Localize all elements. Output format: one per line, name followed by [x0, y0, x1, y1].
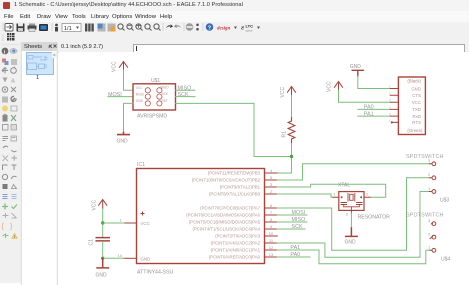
wire GND to J2 pin GND [358, 76, 391, 89]
svg-text:4: 4 [270, 168, 273, 173]
svg-text:4: 4 [389, 105, 391, 109]
resistor R1 [288, 118, 295, 144]
svg-text:2: 2 [346, 212, 349, 217]
svg-text:AVRISPSMD: AVRISPSMD [137, 114, 167, 120]
node PA1 wire IC1 pin12 to U$4 pin1 [277, 250, 430, 264]
power symbol VCC (near J2) [334, 82, 342, 91]
svg-text:SCK: SCK [292, 224, 303, 230]
pin 1 VCC (left) [124, 222, 137, 224]
ground below XTAL [346, 228, 357, 236]
wire IC1 pin11 to U$3 pin1 [277, 192, 429, 258]
wire IC1 pin2 to XTAL pin1 [277, 194, 333, 197]
svg-text:ATTINY44-SSU: ATTINY44-SSU [137, 270, 173, 276]
svg-text:U$1: U$1 [151, 78, 160, 84]
svg-text:9: 9 [270, 224, 273, 229]
svg-text:GND: GND [411, 86, 421, 91]
svg-text:U$4: U$4 [441, 257, 450, 263]
connector J2 FTDI header [398, 77, 425, 135]
wire IC1 pin3 to XTAL pin3 [277, 184, 386, 197]
wire SCK stub [176, 96, 196, 98]
wire RST net (U$1 to junction) [176, 103, 292, 156]
svg-text:U$3: U$3 [440, 198, 449, 204]
svg-text:3: 3 [389, 98, 391, 102]
svg-text:(PCINT8/XTAL1/CLKI)PB0: (PCINT8/XTAL1/CLKI)PB0 [209, 192, 261, 197]
wire to IC1 pin14 [103, 257, 124, 259]
wire R1 to IC1 pin4 [277, 144, 291, 174]
svg-text:5: 5 [389, 112, 391, 116]
panel divider lines [57, 42, 58, 285]
wire VCC rail to IC1 pin1 [103, 209, 124, 224]
svg-text:6: 6 [270, 203, 273, 208]
sheets header pin and close icons [49, 45, 57, 49]
svg-text:GND: GND [350, 64, 362, 70]
svg-text:}: } [10, 224, 13, 231]
svg-text:(PCINT6/OC1A/SDA/MOSI/ADC6)PA6: (PCINT6/OC1A/SDA/MOSI/ADC6)PA6 [186, 213, 260, 218]
svg-text:(PCINT10/INT0/OC0A/CKOUT)PB2: (PCINT10/INT0/OC0A/CKOUT)PB2 [192, 178, 261, 183]
sheet panel scrollbar arrow [52, 52, 57, 58]
junction GND/C1 [101, 257, 104, 260]
IC1 pin function labels [186, 171, 260, 260]
svg-text:GND: GND [117, 139, 129, 145]
svg-text:RTS: RTS [412, 120, 421, 125]
svg-text:(PCINT5/OC1B/MISO/DO/ADC5)PA5: (PCINT5/OC1B/MISO/DO/ADC5)PA5 [189, 220, 261, 225]
svg-text:C: C [45, 56, 49, 61]
wire MISO stub [176, 89, 196, 91]
svg-text:3: 3 [366, 192, 369, 197]
svg-text:SCK: SCK [178, 92, 189, 98]
node MISO stub at IC1 pin8 [277, 221, 307, 223]
left palette icons [2, 44, 20, 240]
svg-text:14: 14 [118, 253, 123, 258]
svg-text:(PCINT3/T0/ADC3)PA3: (PCINT3/T0/ADC3)PA3 [215, 234, 260, 239]
junction VCC/C1 [101, 221, 104, 224]
node PA0 stub at IC1 pin13 [277, 256, 310, 258]
svg-text:GND: GND [136, 99, 144, 103]
toolbar row 2 grid icon [3, 33, 15, 41]
svg-text:TXD: TXD [412, 107, 421, 112]
wire VCC to J2 [339, 90, 391, 102]
svg-text:CTS: CTS [412, 93, 421, 98]
IC1 right pin stubs [265, 173, 278, 257]
svg-text:7: 7 [270, 210, 273, 215]
svg-text:5: 5 [270, 175, 273, 180]
svg-text:2: 2 [270, 189, 273, 194]
pin dot J2 RTS (unconnected) [391, 121, 393, 123]
svg-text:RxD: RxD [412, 114, 421, 119]
power symbol VCC (top-left, for AVRISPSMD) [119, 62, 127, 71]
junction RST node [290, 155, 293, 158]
svg-text:MISO: MISO [178, 86, 192, 92]
svg-text:GND: GND [345, 240, 357, 246]
svg-text:spice: spice [246, 29, 253, 33]
svg-text:10: 10 [269, 231, 274, 236]
svg-text:RST: RST [162, 99, 168, 103]
wire VCC to R1 [291, 96, 293, 118]
svg-text:design: design [217, 27, 231, 32]
svg-text:(Black): (Black) [407, 78, 421, 83]
svg-text:2: 2 [428, 232, 431, 237]
wire XTAL pin2 to ground [350, 213, 352, 228]
toolbar row 1 icons [3, 23, 261, 33]
svg-text:3: 3 [428, 218, 431, 223]
svg-text:1: 1 [334, 192, 337, 197]
svg-text:1/1: 1/1 [64, 26, 72, 32]
node SCK stub at IC1 pin9 [277, 228, 305, 230]
svg-text:VCC: VCC [412, 100, 421, 105]
svg-text:SPDTSWITCH: SPDTSWITCH [406, 154, 444, 160]
svg-text:GND: GND [141, 256, 151, 261]
svg-text:(PCINT11/RESET/DW)PB3: (PCINT11/RESET/DW)PB3 [208, 171, 261, 176]
wire IC1 pin5 to U$3 pin3 [277, 164, 429, 180]
sheet thumbnail doodles [28, 56, 49, 70]
svg-text:VCC: VCC [92, 200, 98, 211]
svg-text:IC1: IC1 [137, 162, 145, 168]
svg-text:SPDTSWITCH: SPDTSWITCH [406, 213, 444, 219]
svg-text:(PCINT2/AIN1/ADC2)PA2: (PCINT2/AIN1/ADC2)PA2 [211, 241, 261, 246]
svg-text:12: 12 [269, 245, 274, 250]
svg-text:MOSI: MOSI [292, 210, 306, 216]
svg-text:{: { [2, 224, 5, 231]
svg-text:3: 3 [270, 182, 273, 187]
IC1 right pin numbers [269, 168, 274, 257]
svg-text:8: 8 [270, 217, 273, 222]
svg-text:MISO: MISO [292, 217, 306, 223]
wire VCC to U$1 [124, 70, 134, 90]
svg-text:(PCINT4/T1/SCL/USCK/ADC4)PA4: (PCINT4/T1/SCL/USCK/ADC4)PA4 [193, 227, 261, 232]
svg-text:1: 1 [428, 245, 431, 250]
svg-text:1: 1 [120, 218, 123, 223]
svg-text:(PCINT1/AIN0/ADC1)PA1: (PCINT1/AIN0/ADC1)PA1 [211, 248, 261, 253]
svg-text:VCC: VCC [327, 81, 333, 92]
pin 14 GND (left) [124, 257, 137, 259]
svg-text:1: 1 [389, 85, 391, 89]
svg-text:(PCINT9/XTAL2)PB1: (PCINT9/XTAL2)PB1 [220, 185, 261, 190]
node MOSI stub at IC1 pin7 [277, 214, 307, 216]
svg-text:(PCINT7/ICP/OC0B/ADC7)PA7: (PCINT7/ICP/OC0B/ADC7)PA7 [200, 206, 260, 211]
svg-text:1: 1 [428, 186, 431, 191]
svg-text:MISO: MISO [161, 86, 170, 90]
svg-text:VCC: VCC [141, 221, 150, 226]
svg-text:PA1: PA1 [290, 245, 300, 251]
svg-text:VCC: VCC [112, 61, 118, 72]
svg-text:XTAL: XTAL [338, 183, 350, 189]
svg-text:2: 2 [389, 91, 391, 95]
svg-text:PA0: PA0 [290, 252, 300, 258]
svg-text:13: 13 [269, 252, 274, 257]
svg-text:2: 2 [428, 172, 431, 177]
ground for U$1 [124, 103, 134, 132]
svg-text:(PCINT0/AREF/ADC0)PA0: (PCINT0/AREF/ADC0)PA0 [209, 255, 261, 260]
svg-text:C1: C1 [89, 239, 95, 246]
power symbol VCC (left of IC1) [99, 200, 107, 209]
svg-text:SCK: SCK [162, 92, 169, 96]
svg-text:R1: R1 [282, 131, 288, 138]
svg-text:RESONATOR: RESONATOR [358, 215, 391, 221]
XTAL pin stubs [333, 197, 370, 213]
svg-text:(Green): (Green) [407, 128, 423, 133]
svg-text:GND: GND [96, 273, 108, 279]
ground below C1 [97, 258, 108, 268]
svg-text:11: 11 [269, 238, 274, 243]
wire IC1 pin6 to U$3 pin2 [277, 178, 429, 250]
svg-text:VCC: VCC [136, 86, 143, 90]
svg-text:MOSI: MOSI [136, 92, 144, 96]
capacitor C1 [102, 223, 104, 237]
power symbol VCC (above R1) [287, 87, 295, 96]
svg-text:6: 6 [389, 118, 391, 122]
svg-text:Ƨ: Ƨ [241, 26, 244, 32]
svg-text:VCC: VCC [280, 87, 286, 98]
